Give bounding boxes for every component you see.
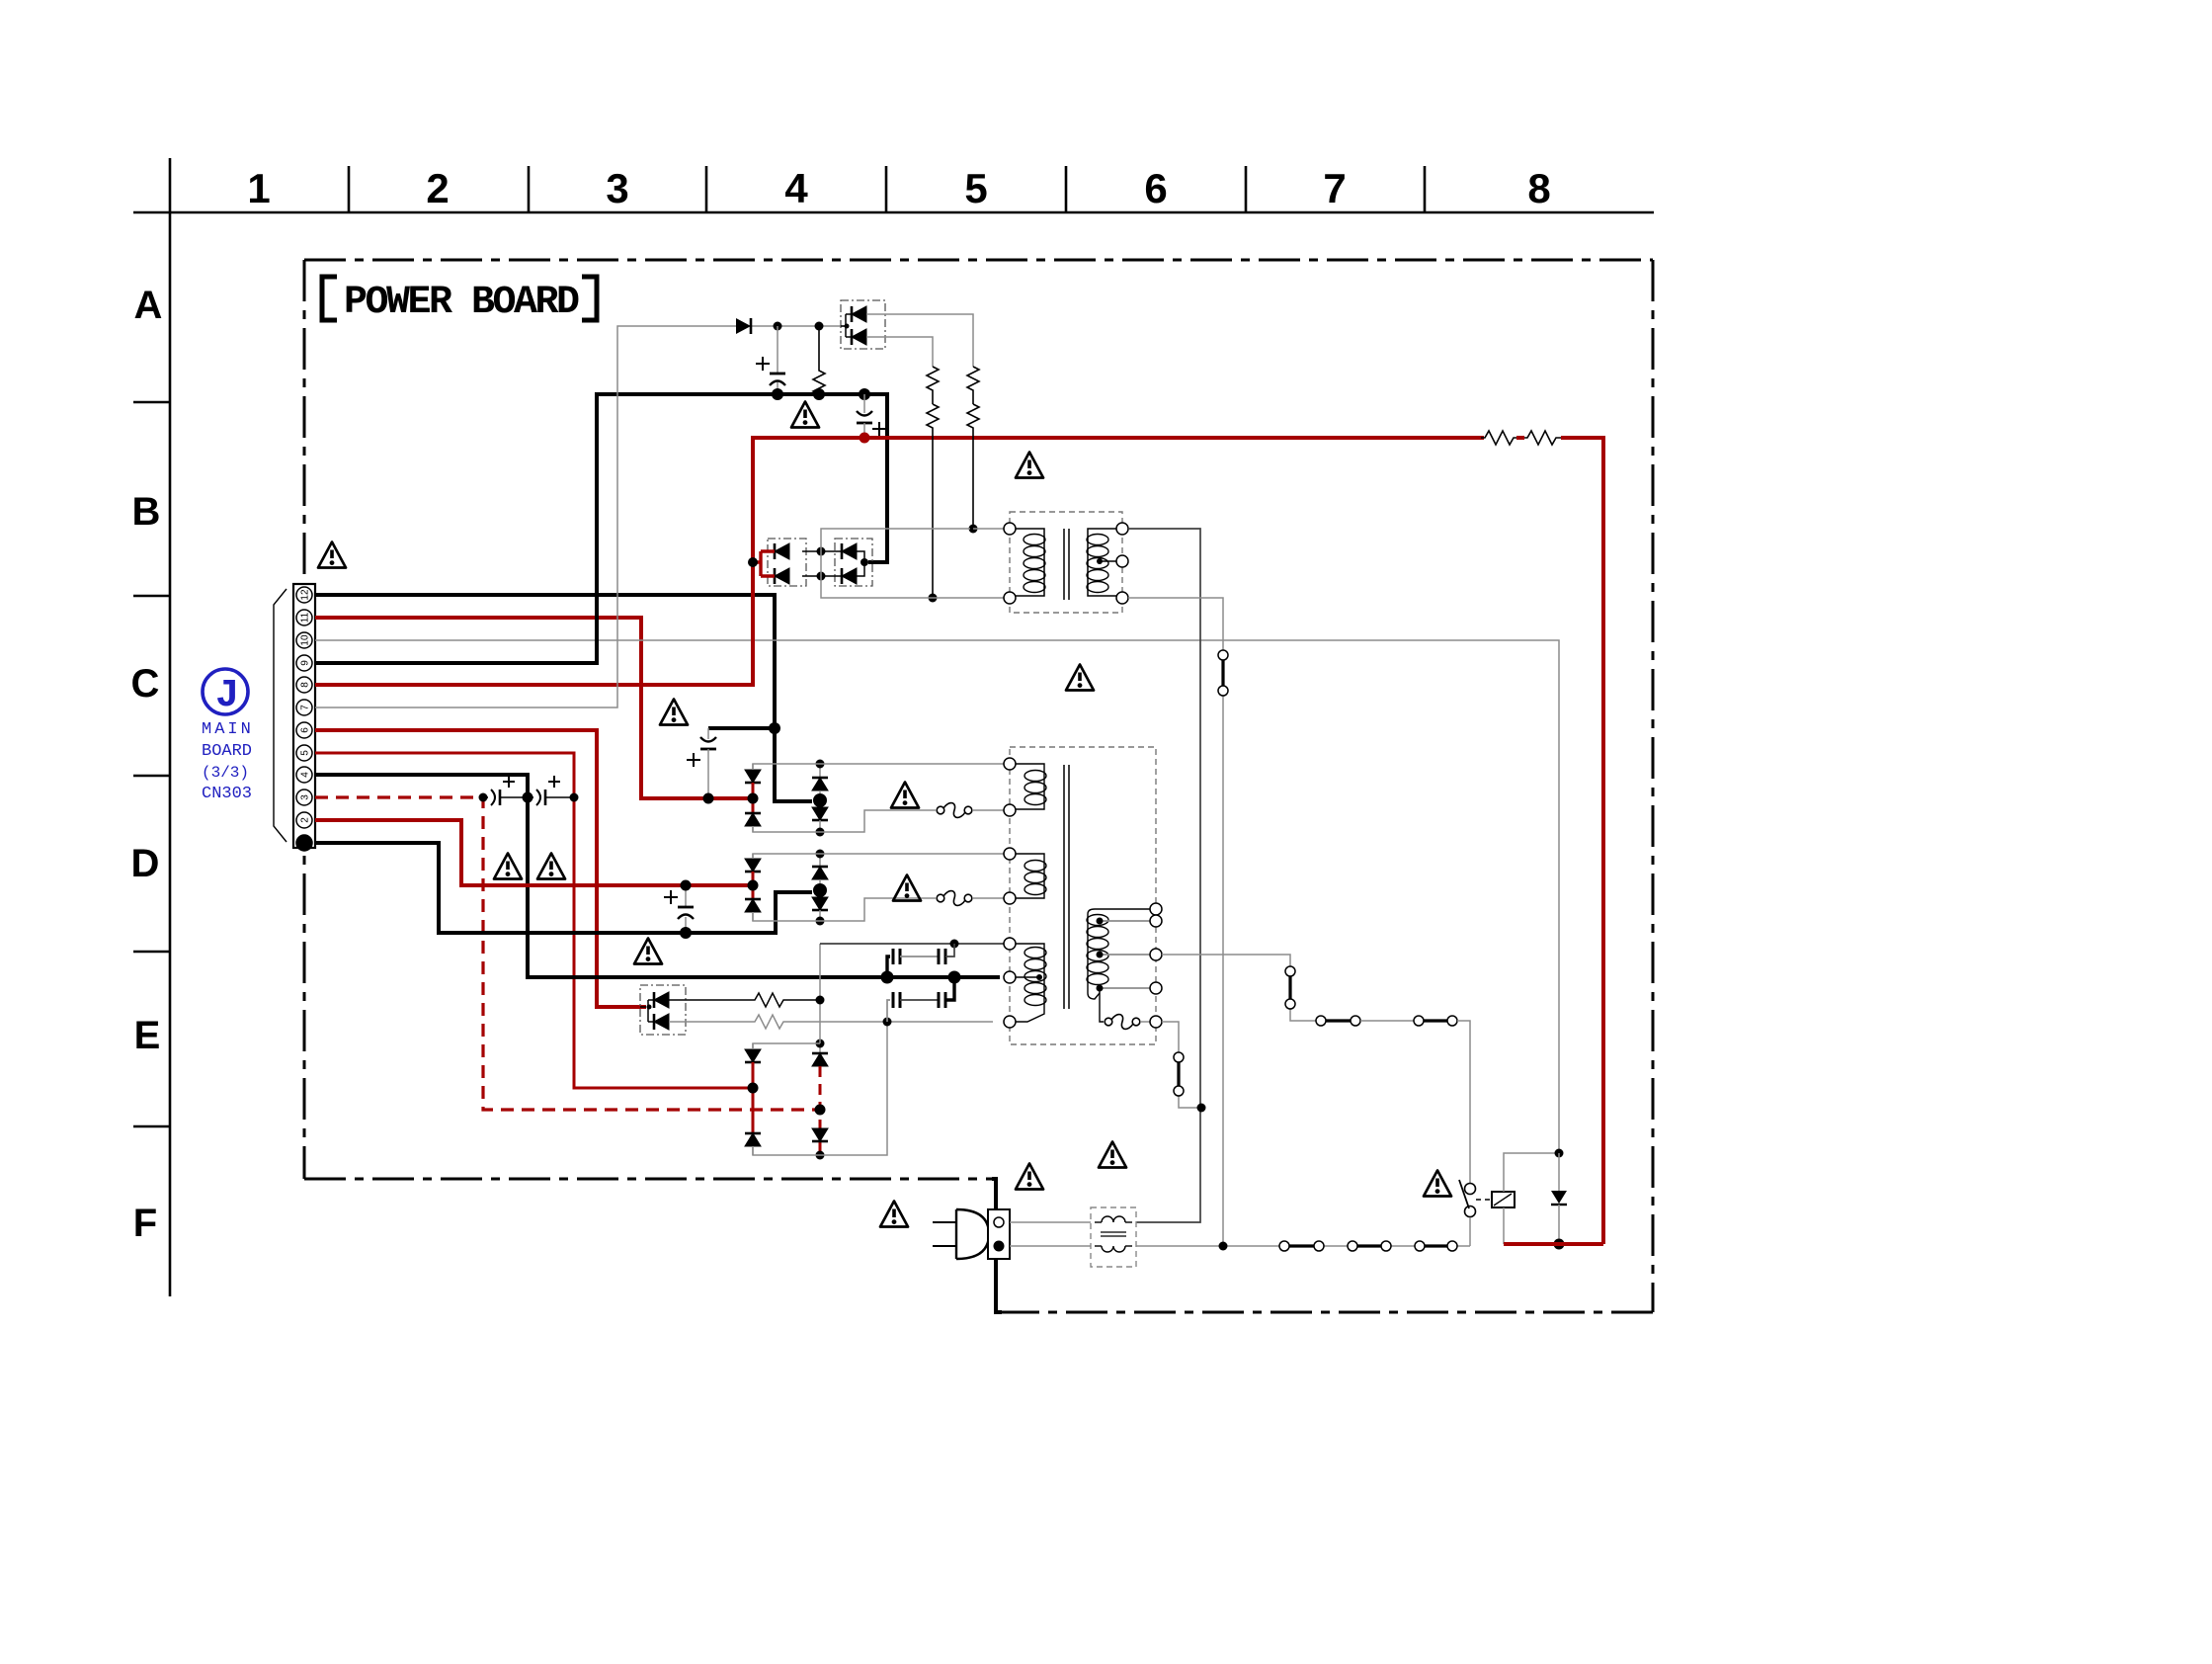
top ruler line bbox=[133, 211, 1654, 214]
pin 4 bbox=[296, 767, 312, 783]
rail to T1 winding3 top bbox=[820, 943, 1004, 945]
node group2 left mid bbox=[748, 880, 759, 891]
warning triangle above T2 bbox=[1016, 453, 1043, 478]
svg-text:4: 4 bbox=[784, 165, 808, 211]
svg-text:B: B bbox=[132, 490, 161, 534]
svg-text:1: 1 bbox=[247, 165, 270, 211]
AC inlet thick lead lower bbox=[996, 1259, 1002, 1312]
svg-text:5: 5 bbox=[964, 165, 987, 211]
warning triangle row D pair left bbox=[494, 854, 522, 879]
interconnect pair on T2 line bbox=[1218, 650, 1228, 660]
top ruler tick 7|8 bbox=[1424, 166, 1427, 212]
title right lenticular bracket bbox=[582, 277, 597, 320]
board boundary right edge bbox=[1652, 260, 1655, 1312]
node pin4 rail tap bbox=[523, 792, 533, 803]
node resistor chain left joins T2 bottom wire bbox=[929, 594, 938, 603]
svg-text:BOARD: BOARD bbox=[202, 742, 252, 761]
wire pin9 thick black top loop to bridge output bbox=[315, 394, 887, 663]
resistor chain left lower bbox=[927, 404, 939, 598]
group1 left branch diodes bbox=[752, 764, 754, 770]
line filter core bbox=[1101, 1232, 1126, 1236]
T1 winding1 bbox=[1010, 764, 1044, 809]
connector body CN303 bbox=[293, 584, 315, 848]
svg-text:POWER BOARD: POWER BOARD bbox=[344, 281, 579, 325]
T2 terminal top-left bbox=[1004, 523, 1016, 535]
cap between pin4 and pin5 rails bbox=[528, 796, 533, 798]
resistor chain left upper bbox=[927, 367, 939, 404]
warning triangle near fuse2 bbox=[893, 875, 921, 901]
svg-text:F: F bbox=[133, 1202, 157, 1245]
AC interconnect pair 1 bbox=[1279, 1241, 1289, 1251]
svg-text:7: 7 bbox=[1323, 165, 1346, 211]
svg-text:D: D bbox=[131, 842, 160, 885]
warning triangle row E bbox=[634, 939, 662, 964]
T2 left winding bbox=[1010, 529, 1044, 596]
node pin5 rail tap bbox=[570, 793, 579, 802]
pin 10 bbox=[296, 632, 312, 648]
AC inlet connector box bbox=[988, 1209, 1010, 1259]
red bracket into package A bbox=[753, 551, 775, 576]
wire pin6 red to dual diode package bbox=[315, 730, 646, 1007]
group3 left branch diodes bbox=[752, 1043, 754, 1049]
node red junction bridge A bbox=[748, 557, 758, 567]
cap between pin3 and pin4 rails bbox=[483, 796, 488, 798]
pin 3 bbox=[296, 790, 312, 805]
node pin12 rail at cap branch bbox=[769, 722, 780, 734]
interconnect pair 2 on switch line bbox=[1414, 1016, 1424, 1026]
wires linking packages A and B bbox=[802, 551, 844, 576]
pin 11 bbox=[296, 610, 312, 625]
AC inlet thick lead upper bbox=[992, 1179, 996, 1209]
J logo circle bbox=[203, 669, 248, 714]
resistor R-top bbox=[813, 326, 825, 394]
board boundary bottom-left edge bbox=[304, 1178, 992, 1181]
group2 top rail to T1 winding2 bbox=[753, 854, 1004, 859]
fuse F2 bbox=[937, 891, 972, 906]
T2 terminal bottom-left bbox=[1004, 592, 1016, 604]
node fuse3 line joins T2 feed line bbox=[1197, 1104, 1206, 1113]
dual diode package top bbox=[841, 300, 885, 349]
wire package top output to resistor chain right bbox=[866, 314, 973, 367]
line filter box bbox=[1091, 1207, 1136, 1267]
capacitor C-group1 (electrolytic) bbox=[707, 728, 709, 739]
svg-text:A: A bbox=[134, 284, 163, 327]
warning triangle above AC inlet bbox=[1016, 1164, 1043, 1190]
board boundary left edge bbox=[303, 260, 306, 1179]
node group3 left mid bbox=[748, 1083, 759, 1094]
T2 terminal bottom-right bbox=[1116, 592, 1128, 604]
svg-text:MAIN: MAIN bbox=[202, 720, 254, 739]
warning triangle left of plug bbox=[880, 1202, 908, 1227]
wire pin4 thick black rail to transformer winding3 center bbox=[315, 775, 1000, 977]
svg-text:8: 8 bbox=[300, 682, 311, 688]
wire pin1 thick black to rectifier group2 bbox=[315, 843, 812, 933]
wire between pairs bbox=[1360, 1020, 1414, 1022]
top ruler tick 1|2 bbox=[348, 166, 351, 212]
wire pin8 red to dropper resistors bbox=[315, 438, 1484, 685]
red return wire along bottom bbox=[1504, 1242, 1603, 1246]
relay clamp diode bbox=[1558, 1153, 1560, 1191]
node pin3 corner bbox=[479, 793, 488, 802]
T1 winding2 bbox=[1010, 854, 1044, 898]
node output1 to group3 link bbox=[816, 996, 825, 1005]
svg-text:6: 6 bbox=[1144, 165, 1167, 211]
wire relay coil top bbox=[1504, 1153, 1559, 1192]
svg-text:7: 7 bbox=[300, 705, 311, 710]
node cap bottom on pin1 wire bbox=[680, 927, 692, 939]
node on thick rail at cap bbox=[772, 388, 783, 400]
wire pin5 red to rectifier group3 left bbox=[315, 753, 749, 1088]
wire package output 2 via resistor to T1 winding3 bottom bbox=[669, 1015, 993, 1029]
dropper resistor 1 on red wire bbox=[1481, 431, 1516, 445]
node group1 right mid (thick input) bbox=[813, 793, 827, 807]
svg-text:(3/3): (3/3) bbox=[202, 764, 249, 782]
top ruler tick 3|4 bbox=[705, 166, 708, 212]
red stub between droppers bbox=[1516, 436, 1524, 440]
dropper resistor 2 on red wire bbox=[1524, 431, 1561, 445]
left ruler tick B|C bbox=[133, 595, 170, 598]
wire to switch top bbox=[1457, 1021, 1470, 1184]
line filter winding lower bbox=[1095, 1245, 1102, 1247]
bracket out of package B bbox=[857, 551, 864, 576]
pin 2 bbox=[296, 812, 312, 828]
connector brace bbox=[274, 589, 287, 842]
group2 right branch diodes bbox=[819, 854, 821, 867]
warning triangle near switch bbox=[1424, 1171, 1451, 1197]
T1 core bbox=[1064, 765, 1069, 1009]
group1 right branch diodes bbox=[819, 764, 821, 778]
AC wires to line filter bbox=[1010, 1222, 1091, 1246]
svg-text:2: 2 bbox=[300, 817, 311, 823]
T1 winding3 center tap bbox=[1010, 976, 1039, 978]
AC interconnect pair 2 bbox=[1348, 1241, 1357, 1251]
node group1 right top bbox=[816, 760, 825, 769]
left ruler tick A|B bbox=[133, 401, 170, 404]
pin 5 bbox=[296, 745, 312, 761]
wire package output 1 via resistor bbox=[669, 993, 816, 1007]
cap pair 2 bbox=[887, 1000, 890, 1022]
AC line lower to switch bbox=[1136, 1245, 1470, 1247]
T1 secondary tap 3 bbox=[1100, 954, 1150, 956]
group2 bottom rail with step to fuse2 bbox=[753, 898, 936, 921]
node bridge B common bbox=[860, 558, 868, 566]
node relay top line bbox=[1555, 1149, 1564, 1158]
AC interconnect pair 3 bbox=[1415, 1241, 1425, 1251]
T2 terminal top-right bbox=[1116, 523, 1128, 535]
svg-text:CN303: CN303 bbox=[202, 785, 252, 803]
group3 right branch diodes bbox=[819, 1043, 821, 1053]
node group1 right bottom bbox=[816, 828, 825, 837]
frame wire around bridge pair to T2 bbox=[821, 529, 1004, 598]
wire fuse2 to T1 bbox=[973, 897, 1004, 899]
svg-text:12: 12 bbox=[300, 589, 311, 601]
svg-text:J: J bbox=[215, 674, 239, 718]
left ruler tick C|D bbox=[133, 775, 170, 778]
wire T2 top terminal left bbox=[973, 528, 1004, 530]
group2 left branch diodes bbox=[752, 854, 754, 859]
left ruler line bbox=[169, 158, 172, 1296]
node rail 955 at cap pair1 bbox=[950, 940, 959, 949]
node group3 right top bbox=[816, 1040, 825, 1048]
node thick rail at cap pair2 bbox=[948, 971, 961, 984]
node AC line at T2 return bbox=[1219, 1242, 1228, 1251]
wire fuse3 terminal via interconnect to filter node bbox=[1162, 1022, 1201, 1108]
T2 center tap wire bbox=[1100, 560, 1116, 562]
thick stub to capacitor group1 bbox=[708, 726, 775, 730]
switch blade bbox=[1459, 1180, 1469, 1208]
wire pin10 gray to relay diode bbox=[315, 640, 1559, 1153]
wire package bottom output to resistor chain left bbox=[866, 337, 933, 367]
board boundary top edge bbox=[304, 259, 1653, 262]
group1 top rail to T1 winding1 bbox=[753, 764, 1004, 770]
wire pin3 dashed red to rectifier group3 right bbox=[315, 797, 816, 1110]
T2 terminal mid-right bbox=[1116, 555, 1128, 567]
top ruler tick 2|3 bbox=[528, 166, 531, 212]
node rail 1034 at snubber bbox=[883, 1018, 892, 1027]
node link upper bbox=[817, 547, 826, 556]
svg-text:4: 4 bbox=[300, 772, 311, 778]
dual diode package A bbox=[768, 539, 806, 586]
wire T2 bottom right via interconnect to AC line bbox=[1128, 598, 1223, 1246]
node diode to red return bbox=[1554, 1239, 1565, 1250]
group3 bottom rail bbox=[753, 1022, 887, 1155]
red wire right edge down bbox=[1561, 438, 1603, 1244]
cap pair 1 bbox=[887, 957, 890, 977]
AC plug prongs bbox=[933, 1222, 956, 1246]
svg-text:E: E bbox=[134, 1014, 161, 1057]
pin 9 bbox=[296, 655, 312, 671]
node at resistor tap bbox=[815, 322, 824, 331]
node red wire at cap2 bbox=[860, 433, 870, 444]
left ruler tick E|F bbox=[133, 1125, 170, 1128]
node on thick rail at resistor bbox=[813, 388, 825, 400]
capacitor C-top (electrolytic) bbox=[777, 326, 778, 374]
wire fuse1 to T1 bbox=[973, 809, 1004, 811]
interconnect pair 1 on switch line bbox=[1316, 1016, 1326, 1026]
fuse F3 bbox=[1105, 1015, 1140, 1030]
node at capacitor tap bbox=[774, 322, 782, 331]
line filter winding upper bbox=[1095, 1221, 1102, 1223]
T1 secondary winding bbox=[1088, 909, 1150, 999]
node resistor chain right joins T2 top wire bbox=[969, 525, 978, 534]
group1 bottom rail with step to fuse1 bbox=[753, 810, 936, 832]
T1 right terminals bbox=[1150, 903, 1162, 915]
warning triangle row C left bbox=[660, 700, 688, 725]
title left lenticular bracket bbox=[322, 277, 337, 320]
pin 1 (filled) bbox=[296, 835, 312, 851]
wire pin2 red to rectifier group2 left bbox=[315, 820, 753, 885]
wire pin11 red to rectifier group1 left bbox=[315, 618, 753, 798]
node group3 right mid (dashed input) bbox=[815, 1105, 826, 1116]
svg-text:10: 10 bbox=[300, 634, 311, 646]
capacitor C-group2 (electrolytic) bbox=[685, 885, 687, 907]
node group3 right bottom bbox=[816, 1151, 825, 1160]
node link lower bbox=[817, 572, 826, 581]
T1 secondary to fuse3 bbox=[1100, 988, 1104, 1022]
node thick rail at cap pair1 bbox=[881, 971, 894, 984]
warning triangle row F right bbox=[1099, 1142, 1126, 1168]
svg-text:C: C bbox=[131, 662, 160, 706]
wire top gray input line bbox=[736, 325, 848, 327]
T1 dashed box bbox=[1010, 747, 1156, 1044]
fuse F1 bbox=[937, 803, 972, 818]
svg-text:11: 11 bbox=[300, 612, 311, 623]
group3 vertical link to resistor rail bbox=[819, 944, 821, 1043]
node group2 right bottom bbox=[816, 917, 825, 926]
capacitor C-mid (electrolytic) below thick rail bbox=[863, 394, 865, 413]
T1 winding3 bbox=[1010, 944, 1044, 1022]
pin 6 bbox=[296, 722, 312, 738]
resistor chain right lower bbox=[967, 404, 979, 529]
top ruler tick 6|7 bbox=[1245, 166, 1248, 212]
svg-text:6: 6 bbox=[300, 727, 311, 733]
svg-text:3: 3 bbox=[300, 794, 311, 800]
T1 secondary tap 2 bbox=[1100, 920, 1150, 922]
warning triangle row D pair right bbox=[537, 854, 565, 879]
warning triangle near connector bbox=[318, 542, 346, 568]
dual diode package B bbox=[835, 539, 872, 586]
top ruler tick 5|6 bbox=[1065, 166, 1068, 212]
left ruler tick D|E bbox=[133, 951, 170, 954]
T2 right winding bbox=[1088, 529, 1122, 596]
node on thick rail at cap2 bbox=[859, 388, 870, 400]
wire relay coil bottom bbox=[1503, 1207, 1505, 1244]
T2 dashed box bbox=[1010, 512, 1122, 613]
wire pin12 thick black to rectifier group1 bbox=[315, 595, 812, 801]
svg-text:9: 9 bbox=[300, 660, 311, 666]
node group2 right top bbox=[816, 850, 825, 859]
diode on pin7 line bbox=[736, 318, 751, 334]
warning triangle top area bbox=[791, 402, 819, 428]
warning triangle below T2 bbox=[1066, 665, 1094, 691]
node group1 left mid bbox=[748, 793, 759, 804]
group3 top rail bbox=[753, 1043, 820, 1049]
T2 core bbox=[1064, 529, 1069, 600]
resistor chain right upper bbox=[967, 367, 979, 404]
pin 8 bbox=[296, 677, 312, 693]
node cap top on red wire bbox=[681, 880, 692, 891]
pin 12 bbox=[296, 587, 312, 603]
wire T2 top right to AC filter bbox=[1128, 529, 1200, 1222]
node group2 right mid (thick input) bbox=[813, 883, 827, 897]
interconnect pair vertical on switch line bbox=[1285, 966, 1295, 976]
warning triangle near fuse1 bbox=[891, 783, 919, 808]
AC plug body bbox=[956, 1209, 989, 1259]
svg-text:8: 8 bbox=[1527, 165, 1550, 211]
svg-text:2: 2 bbox=[426, 165, 449, 211]
board boundary bottom-right edge bbox=[998, 1311, 1653, 1314]
pin 7 bbox=[296, 700, 312, 715]
svg-text:3: 3 bbox=[606, 165, 628, 211]
svg-text:5: 5 bbox=[300, 750, 311, 756]
T1 secondary bottom tap bbox=[1100, 987, 1150, 989]
wire switch bottom to AC line bbox=[1469, 1217, 1471, 1246]
interconnect pair on fuse3 line bbox=[1174, 1052, 1184, 1062]
wire pin7 gray to top diode bbox=[315, 326, 736, 707]
wire secondary tap3 to power switch bbox=[1162, 955, 1316, 1021]
top ruler tick 4|5 bbox=[885, 166, 888, 212]
node cap to red wire group1 bbox=[703, 793, 714, 804]
switch link dashed to relay bbox=[1476, 1199, 1492, 1201]
